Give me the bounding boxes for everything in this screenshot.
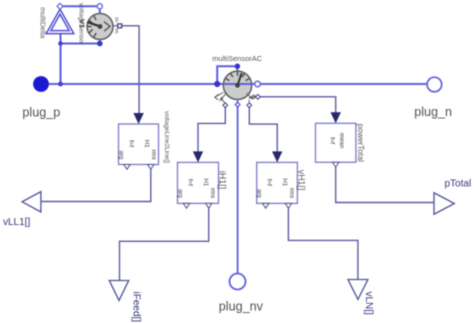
svg-text:vLL1[]: vLL1[] [3, 217, 30, 228]
svg-text:arg: arg [177, 189, 184, 198]
svg-text:f=f: f=f [329, 137, 336, 144]
svg-text:V1: V1 [77, 19, 86, 28]
svg-text:pTotal: pTotal [445, 179, 472, 190]
svg-text:powerTotal: powerTotal [356, 124, 365, 162]
svg-text:vLN[]: vLN[] [363, 292, 374, 316]
svg-text:plug_n: plug_n [414, 105, 452, 119]
svg-text:voltageLine2Line[]: voltageLine2Line[] [163, 111, 170, 163]
svg-text:rms: rms [288, 188, 295, 198]
svg-text:f=f: f=f [186, 179, 193, 186]
svg-text:m: m [113, 17, 119, 22]
svg-text:plug_p: plug_p [22, 105, 60, 119]
svg-text:vH1[]: vH1[] [297, 170, 307, 191]
svg-text:mean: mean [338, 133, 345, 148]
svg-text:multiSensorAC: multiSensorAC [212, 54, 263, 63]
svg-text:f=f: f=f [265, 179, 272, 186]
svg-text:H1: H1 [281, 178, 288, 186]
svg-text:arg: arg [256, 189, 263, 198]
svg-text:H1: H1 [202, 178, 209, 186]
svg-text:rms: rms [150, 150, 157, 160]
svg-text:m: m [113, 29, 119, 34]
svg-text:multiDelta: multiDelta [38, 7, 45, 38]
svg-text:f=f: f=f [127, 140, 134, 147]
svg-text:arg: arg [118, 151, 125, 160]
svg-text:iFeed[]: iFeed[] [131, 292, 142, 323]
svg-text:plug_nv: plug_nv [219, 299, 264, 313]
svg-text:iH1[]: iH1[] [218, 171, 228, 190]
svg-text:H1: H1 [143, 140, 150, 148]
svg-text:rms: rms [209, 188, 216, 198]
